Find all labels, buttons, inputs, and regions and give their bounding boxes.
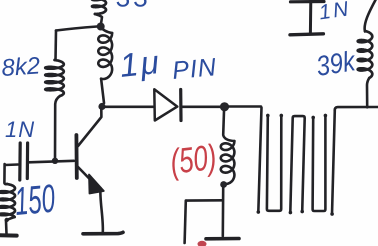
capacitor C2 stem bbox=[309, 0, 312, 33]
wire diode to node3 bbox=[181, 106, 220, 109]
meander v8 from top wire bbox=[332, 110, 335, 215]
resistor R2 150 bbox=[0, 184, 15, 217]
node node2 dot bbox=[98, 103, 105, 110]
meander u1 v2-v3 bbox=[267, 115, 281, 211]
wire node1 to left bbox=[56, 27, 97, 31]
transistor Q1 base bar bbox=[75, 135, 79, 178]
resistor R3 39k bbox=[358, 31, 373, 78]
capacitor C2 top bar bbox=[291, 0, 325, 3]
meander v1 bbox=[258, 108, 261, 213]
inductor L1 1u coil bbox=[101, 27, 112, 33]
meander n1 v4-v5 bbox=[290, 116, 304, 213]
coil L2 (50) bbox=[223, 111, 234, 141]
node node3 dot bbox=[220, 102, 229, 111]
wire 150 to ground bbox=[6, 217, 15, 234]
svg-text:(50): (50) bbox=[168, 137, 218, 182]
svg-text:1μ: 1μ bbox=[118, 43, 163, 84]
red mark bottom bbox=[198, 241, 207, 246]
resistor R1 8k2 bbox=[45, 60, 64, 96]
wire node1 stub bbox=[95, 14, 102, 24]
wire cap input bbox=[5, 163, 18, 166]
wire L1 to node2 bbox=[101, 79, 104, 103]
resistor R-top 33 (cut off at top) bbox=[92, 0, 106, 14]
ground coil bbox=[206, 237, 239, 241]
wire tee left bbox=[186, 199, 222, 202]
wire 39k down bbox=[367, 78, 369, 107]
svg-text:150: 150 bbox=[13, 175, 57, 223]
transistor Q1 collector bbox=[78, 109, 101, 146]
wire 39k top lead bbox=[365, 0, 376, 32]
capacitor C1 right plate bbox=[26, 143, 30, 179]
capacitor C2 bottom bar bbox=[290, 34, 323, 35]
wire emitter down bbox=[100, 188, 103, 232]
ground Q1 emitter bbox=[83, 232, 123, 234]
svg-text:PIN: PIN bbox=[171, 53, 218, 85]
wire left down to 8k2 bbox=[54, 31, 57, 61]
diode D1 cathode bar bbox=[179, 90, 183, 121]
diode D1 PIN triangle bbox=[154, 89, 177, 120]
wire node2 to diode bbox=[105, 106, 153, 109]
wire 8k2 to base wire bbox=[55, 96, 60, 161]
wire left stub down bbox=[185, 201, 186, 243]
svg-text:33: 33 bbox=[116, 0, 151, 13]
svg-text:39k: 39k bbox=[314, 44, 359, 82]
stroke-end blobs bbox=[5, 114, 334, 223]
node base junction bbox=[52, 158, 58, 164]
node node4 below coil bbox=[220, 181, 227, 188]
svg-text:8k2: 8k2 bbox=[1, 52, 41, 82]
node node1 dot bbox=[97, 23, 105, 31]
ground R2 bbox=[0, 233, 17, 237]
wire input corner down bbox=[4, 164, 7, 184]
capacitor C1 left plate bbox=[18, 143, 22, 180]
svg-text:1N: 1N bbox=[5, 117, 35, 142]
wire node3 to meander bbox=[229, 105, 261, 108]
wire base bbox=[29, 161, 74, 163]
transistor Q1 emitter arrow bbox=[89, 175, 104, 194]
transistor Q1 emitter bbox=[78, 167, 99, 188]
wire top right corner bbox=[335, 107, 378, 111]
meander u2 v6-v7 bbox=[313, 115, 326, 211]
wire node4 down bbox=[222, 187, 225, 236]
